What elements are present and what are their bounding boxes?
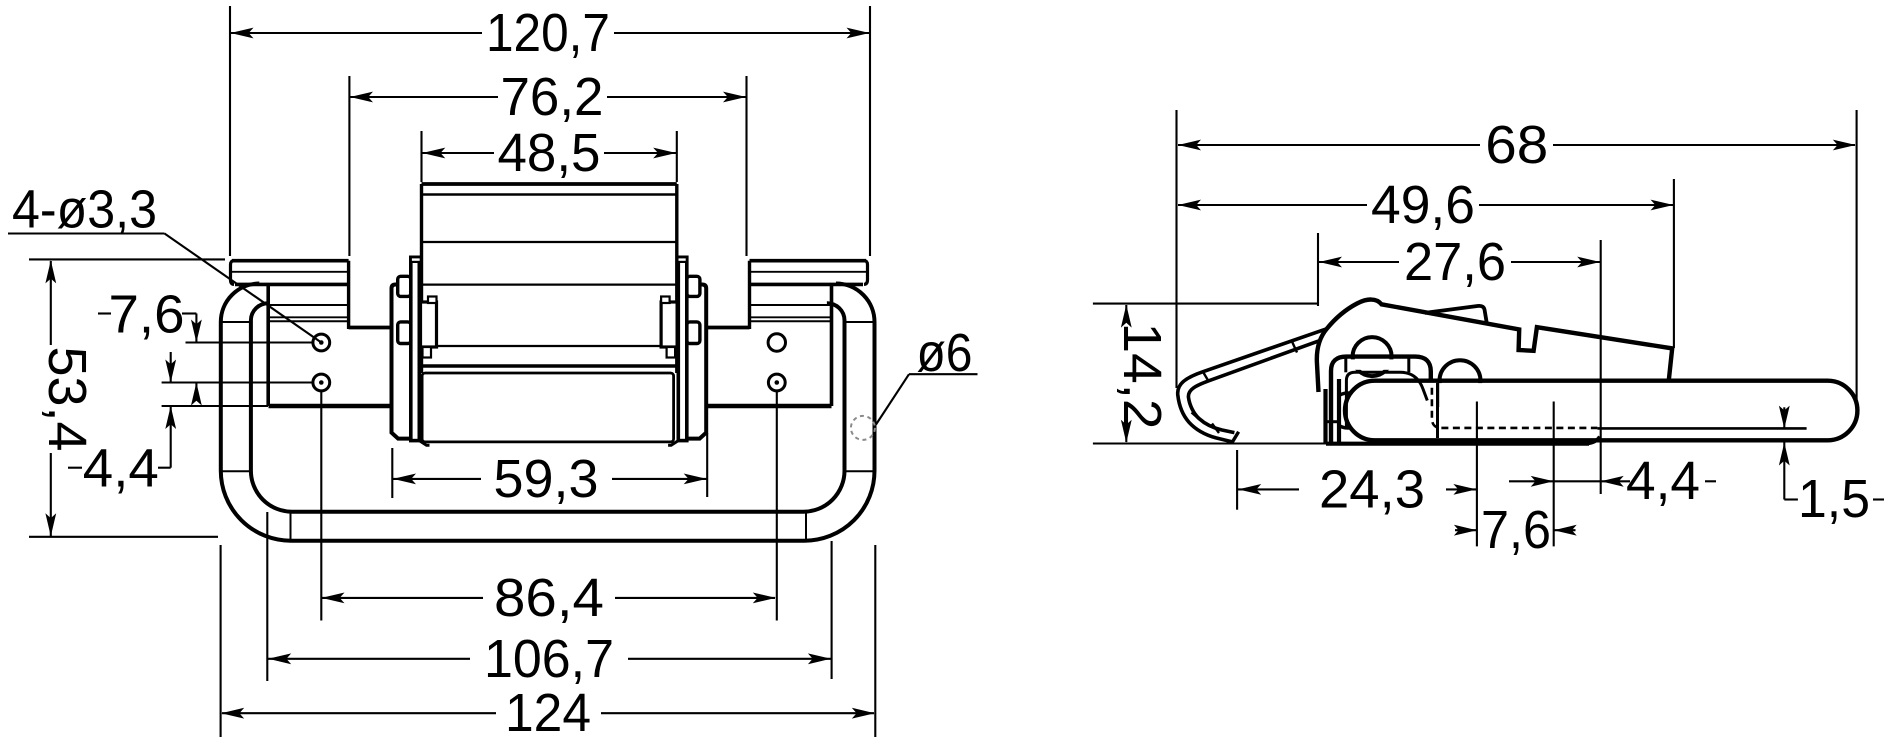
left wing inner end edge [347, 261, 350, 329]
dimension 7,6 (side) [1476, 402, 1478, 547]
plate end lip [1586, 437, 1600, 444]
center bracket right edge [687, 285, 706, 439]
svg-text:106,7: 106,7 [484, 629, 614, 689]
svg-text:14,2: 14,2 [1112, 323, 1172, 430]
dimension 53,4 [29, 258, 225, 260]
right wing top edge [750, 259, 867, 263]
left bolt tab lower [398, 322, 411, 344]
plate right edge [830, 284, 834, 406]
hook bend tick 2 [1203, 371, 1210, 382]
svg-text:4,4: 4,4 [83, 439, 159, 499]
pawl tab [1425, 306, 1487, 322]
svg-text:1,5: 1,5 [1798, 469, 1870, 529]
tower top inner line [422, 193, 677, 195]
plate bottom edge (side) [1326, 442, 1589, 446]
frame seam bottom-right [845, 470, 875, 472]
svg-text:4,4: 4,4 [1626, 451, 1700, 511]
hidden edge dashed line [1432, 388, 1598, 428]
lever outline [1345, 381, 1857, 441]
dimension 1,5 [1783, 407, 1785, 428]
handle frame inner contour [251, 303, 845, 512]
plate bottom edge right part [707, 404, 832, 408]
right clip notch [661, 297, 670, 304]
svg-text:7,6: 7,6 [1481, 500, 1551, 560]
hole center dot bottom-right [775, 380, 780, 385]
right strip top cap [677, 257, 687, 262]
left wing seam line [232, 271, 349, 273]
dimension 4,4 (side) [1509, 480, 1630, 482]
handle frame fill [221, 284, 875, 541]
post inner face [1337, 379, 1341, 444]
left strip plate [411, 257, 420, 440]
svg-text:48,5: 48,5 [498, 123, 601, 183]
bracket band mask [1349, 359, 1406, 369]
bracket band end right [1407, 358, 1410, 372]
left strip top cap [411, 257, 421, 262]
dimension 68 [1175, 110, 1177, 388]
center bracket left edge [392, 285, 412, 439]
tower left edge [420, 184, 423, 373]
pivot rivet circle [1331, 393, 1366, 428]
right clip foot [667, 347, 676, 358]
drum collar line [419, 364, 678, 368]
left wing bottom / plate top edge left [235, 283, 349, 287]
dimension 86,4 [320, 392, 322, 621]
svg-text:76,2: 76,2 [501, 67, 604, 127]
dimension 7,6 (front) [98, 312, 111, 314]
tower right edge [675, 184, 678, 373]
right clip [661, 302, 677, 347]
frame seam bottom-bar-left [290, 512, 292, 541]
dimension 4,4 (front) [68, 467, 82, 469]
hole center dot top-left [319, 340, 324, 345]
hook bend tick 4 [1212, 424, 1219, 434]
frame seam top-left [221, 321, 251, 323]
bracket inner contour [1346, 372, 1427, 428]
right bolt tab upper [687, 276, 700, 296]
right wing bottom / plate top edge right [750, 283, 864, 287]
left hem line 1 [269, 304, 349, 306]
right arm bottom edge [706, 326, 749, 330]
right bolt tab lower [687, 322, 700, 344]
left wing end cap [231, 261, 235, 285]
hook outer contour [1178, 327, 1332, 442]
right hem line 3 [750, 320, 832, 322]
right wing seam line [750, 271, 867, 273]
right strip bottom chamfer [668, 441, 678, 446]
lever boss circle [1440, 360, 1481, 401]
hook bend tick 3 [1192, 413, 1200, 420]
mounting hole top-left [313, 334, 330, 351]
right strip plate [678, 257, 687, 440]
svg-text:7,6: 7,6 [109, 285, 185, 345]
rivet boss circle [1353, 337, 1392, 376]
dimension 76,2 [348, 76, 350, 256]
svg-text:59,3: 59,3 [494, 449, 599, 509]
plate bottom edge left part [269, 404, 392, 408]
left clip notch [428, 297, 437, 304]
mounting hole bottom-left [313, 374, 330, 391]
tower surface line 1 [422, 241, 677, 243]
svg-text:49,6: 49,6 [1371, 175, 1475, 235]
frame seam top-right [845, 321, 875, 323]
frame seam bottom-left [221, 470, 251, 472]
right wing inner end edge [748, 261, 751, 329]
left wing top edge [232, 259, 349, 263]
dimension 120,7 [229, 6, 231, 256]
mounting hole top-right [768, 334, 785, 351]
right wing end cap [864, 261, 868, 285]
dimension 49,6 [1673, 179, 1675, 348]
dimension 59,3 [391, 448, 393, 498]
right hem line 2 [750, 316, 832, 318]
lever seam [1436, 383, 1439, 438]
left arm bottom edge [349, 326, 392, 330]
dashed hole circle o6 [851, 416, 875, 440]
bracket outer contour [1331, 357, 1431, 444]
svg-text:4-ø3,3: 4-ø3,3 [12, 180, 157, 240]
lever boss mask [1437, 383, 1483, 406]
lever seam repaint [1436, 383, 1439, 407]
handle frame outer contour [221, 284, 875, 541]
hole center dot bottom-left [319, 380, 324, 385]
svg-text:27,6: 27,6 [1404, 232, 1506, 292]
left clip foot [423, 347, 432, 358]
post tick [1326, 420, 1340, 423]
mounting hole bottom-right [768, 374, 785, 391]
plate end post fill [1328, 372, 1339, 443]
cam body fill [1317, 300, 1672, 424]
left hem line 3 [269, 320, 349, 322]
right hem line 1 [750, 304, 832, 306]
tower surface line 3 [437, 345, 661, 347]
svg-text:86,4: 86,4 [494, 568, 604, 628]
svg-text:24,3: 24,3 [1319, 460, 1425, 520]
svg-text:120,7: 120,7 [486, 3, 610, 63]
svg-text:68: 68 [1485, 115, 1548, 175]
left hem line 2 [269, 316, 349, 318]
bracket band end left [1344, 358, 1347, 372]
cam body outline [1317, 300, 1672, 392]
hook bend tick 1 [1292, 342, 1297, 353]
dimension 24,3 [1236, 450, 1238, 510]
left strip bottom chamfer [419, 441, 429, 446]
dimension 27,6 [1317, 233, 1319, 306]
lower drum box [422, 373, 673, 442]
hook tip end cut [1231, 432, 1238, 444]
frame seam bottom-bar-right [805, 512, 807, 541]
dimension 14,2 [1093, 303, 1319, 305]
dimension 124 [220, 545, 222, 737]
tower surface line 2 [422, 284, 677, 286]
dimension 48,5 [420, 131, 422, 182]
svg-text:53,4: 53,4 [37, 347, 97, 452]
plate left edge [266, 284, 270, 406]
hook inner contour [1188, 338, 1326, 432]
svg-text:124: 124 [505, 683, 591, 743]
left clip [421, 302, 437, 347]
left bolt tab upper [398, 276, 411, 296]
dimension 106,7 [266, 512, 268, 681]
tower top edge [422, 182, 677, 186]
lever fold line [1597, 427, 1806, 430]
post outer face [1323, 389, 1327, 444]
